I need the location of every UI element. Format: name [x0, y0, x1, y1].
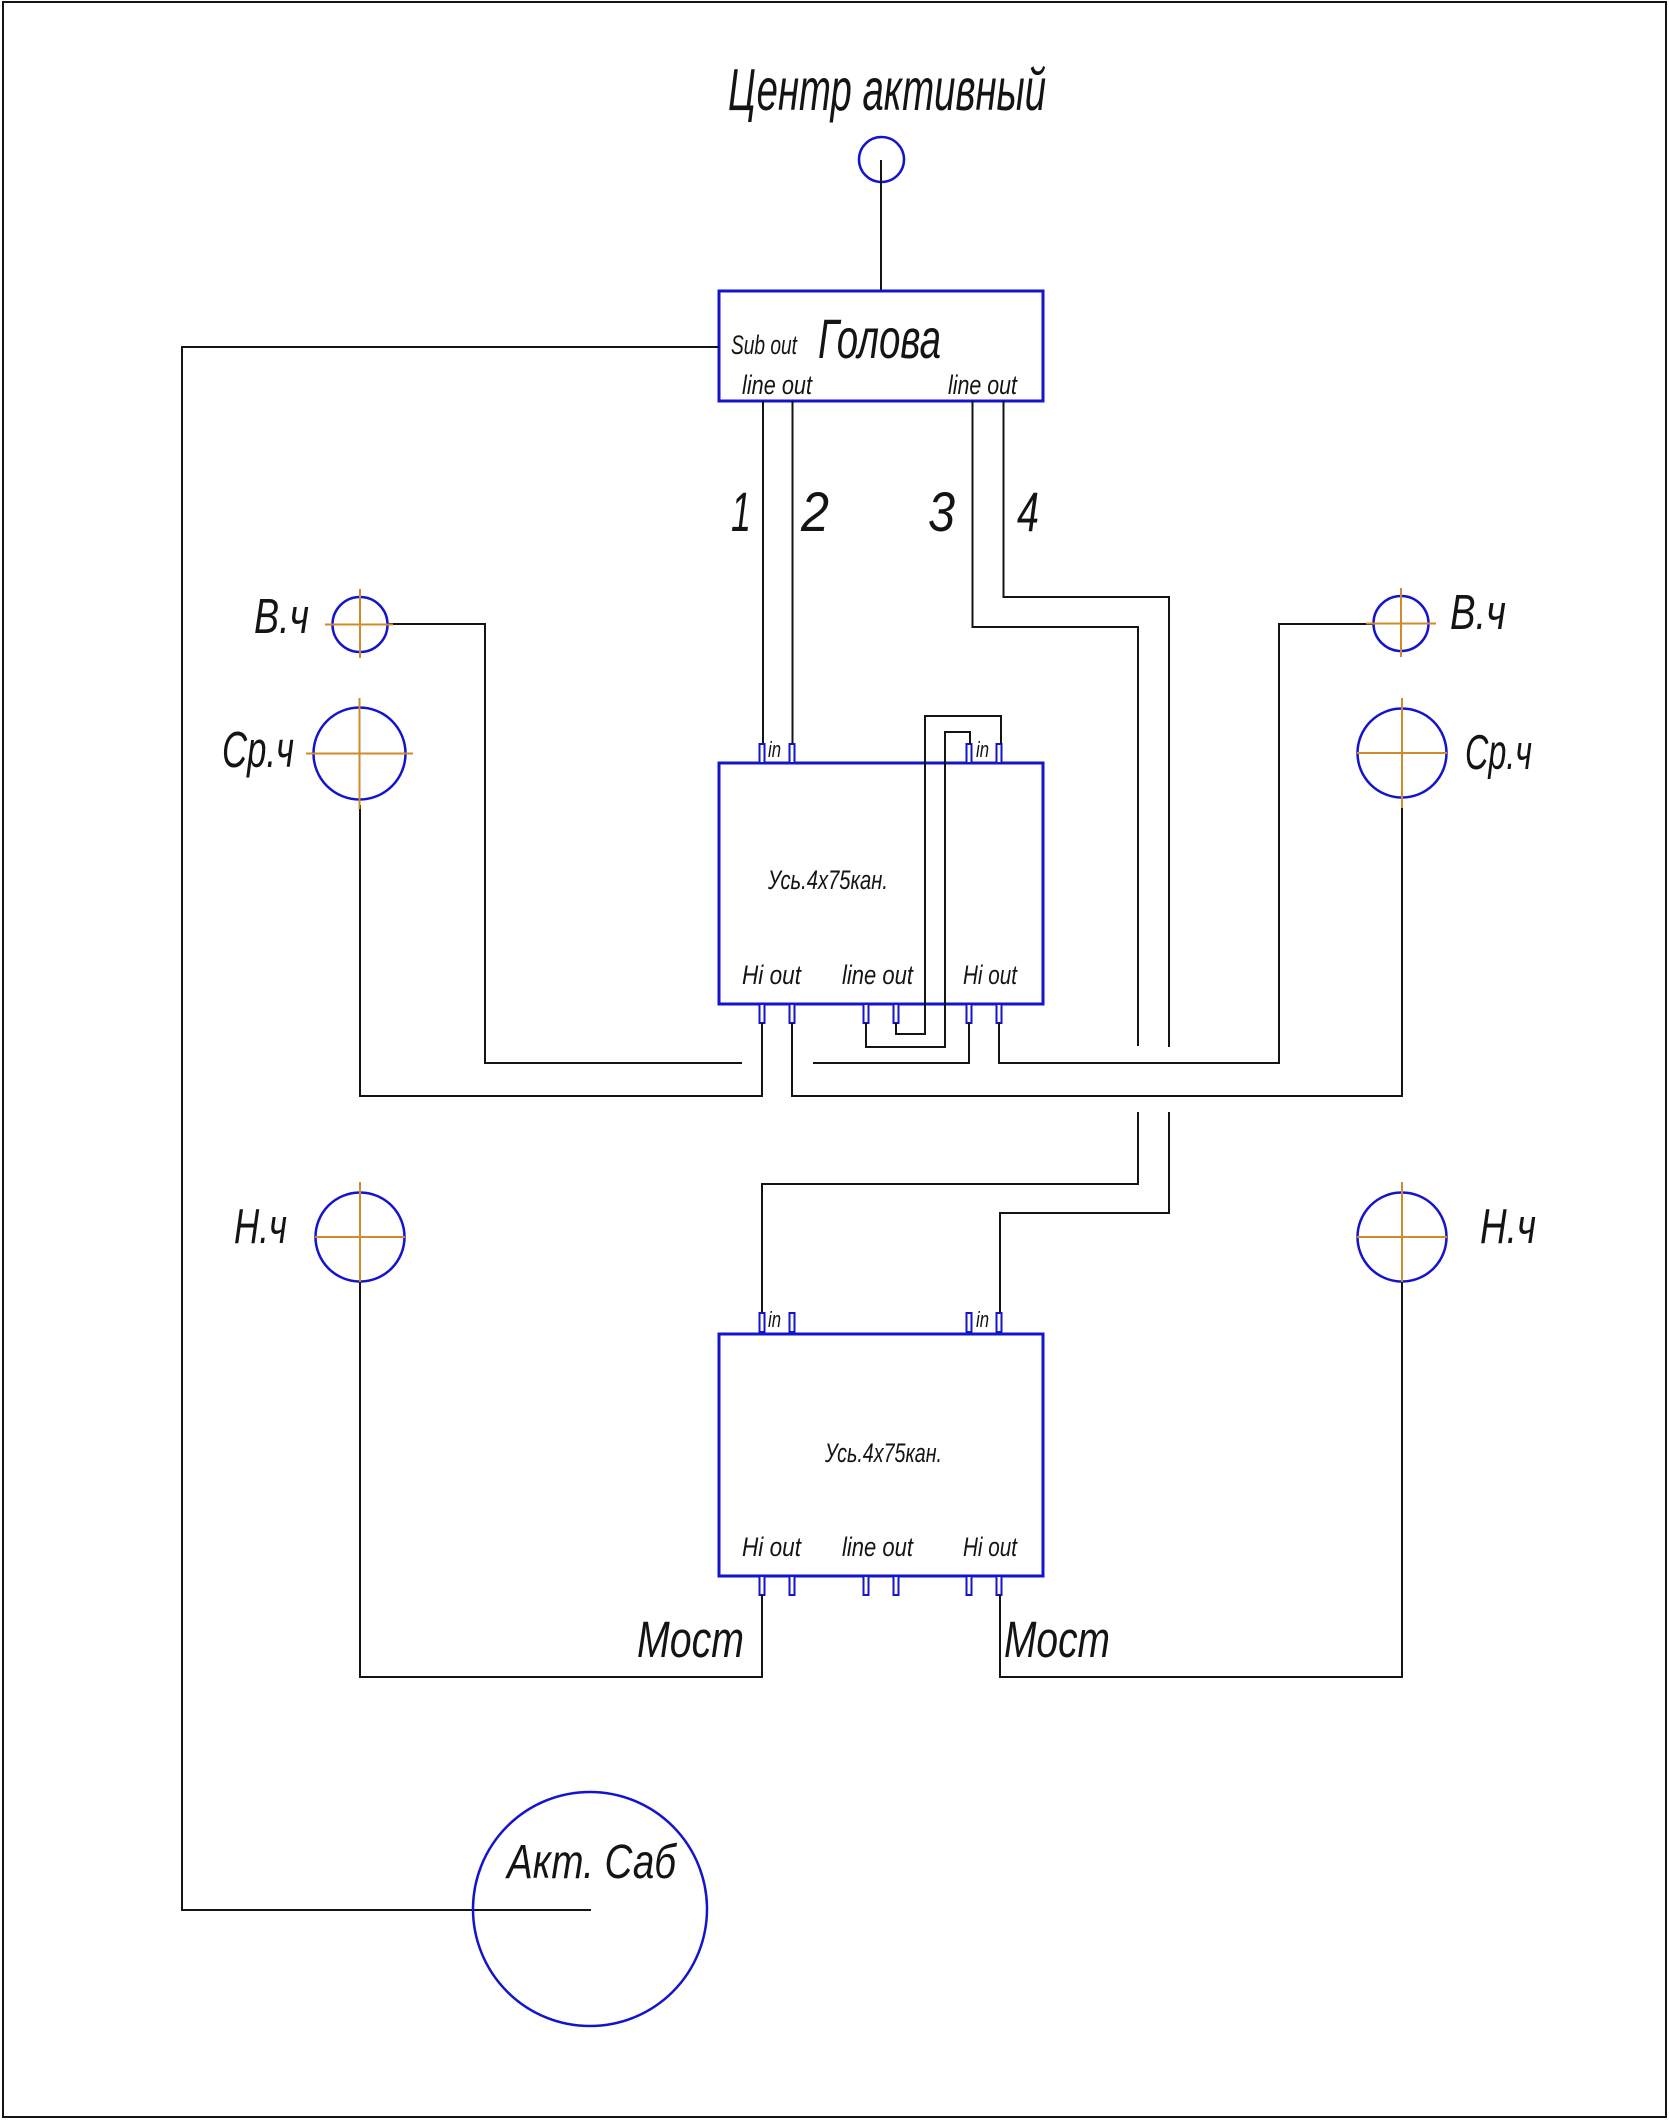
pin A2 hi out 1	[760, 1576, 765, 1595]
wire source to head	[880, 160, 882, 291]
speaker woofer Н.ч right	[1357, 1182, 1447, 1292]
svg-text:line out: line out	[842, 1532, 914, 1562]
pin A1 hi out 4	[997, 1004, 1002, 1023]
pin A1 line out 1	[864, 1004, 869, 1023]
pin A2 in1	[760, 1313, 765, 1332]
pin A1 line out 2	[894, 1004, 899, 1023]
svg-text:В.ч: В.ч	[1450, 586, 1506, 640]
svg-text:В.ч: В.ч	[254, 590, 309, 644]
subwoofer Акт. Саб	[473, 1792, 707, 2026]
wire 3 head to amp2 in1	[762, 401, 1138, 1313]
svg-text:2: 2	[800, 480, 829, 543]
speaker tweeter В.ч right	[1366, 588, 1436, 657]
svg-text:Н.ч: Н.ч	[234, 1200, 287, 1254]
wire sub out to subwoofer	[182, 347, 719, 1910]
wire 1 head to amp1 in1	[762, 401, 764, 744]
wire A2 bridge left to left woofer	[360, 1282, 762, 1677]
svg-text:Усь.4х75кан.: Усь.4х75кан.	[824, 1438, 942, 1468]
wire 4 head to amp2 in4	[1000, 401, 1169, 1313]
svg-text:Hi out: Hi out	[963, 960, 1018, 990]
wire A1 hi out 4 to right tweeter	[999, 624, 1374, 1063]
speaker midrange Ср.ч right	[1357, 698, 1447, 808]
wire left tweeter to A1 hi out 3	[388, 624, 969, 1063]
svg-text:Sub out: Sub out	[731, 330, 798, 360]
svg-text:in: in	[768, 737, 781, 762]
svg-text:1: 1	[731, 480, 751, 543]
pin A1 hi out 2	[790, 1004, 795, 1023]
svg-text:Ср.ч: Ср.ч	[222, 721, 294, 778]
wire A1 hi out 1 to left midrange	[360, 805, 762, 1096]
pin A2 line out 1	[864, 1576, 869, 1595]
wire A1 line out 2 loop to in4	[896, 716, 1001, 1034]
wire 2 head to amp1 in2	[792, 401, 794, 744]
pin A2 hi out 3	[967, 1576, 972, 1595]
svg-text:Усь.4х75кан.: Усь.4х75кан.	[767, 865, 888, 895]
pin A2 in2	[790, 1313, 795, 1332]
svg-text:Мост: Мост	[1004, 1611, 1110, 1668]
pin A2 in3	[967, 1313, 972, 1332]
speaker woofer Н.ч left	[315, 1182, 405, 1292]
speaker tweeter В.ч left	[325, 589, 393, 658]
svg-text:Hi out: Hi out	[963, 1532, 1018, 1562]
speaker midrange Ср.ч left	[306, 698, 413, 809]
connector circle (source)	[859, 137, 904, 182]
pin A1 hi out 1	[760, 1004, 765, 1023]
svg-text:3: 3	[928, 480, 955, 543]
pin A1 hi out 3	[967, 1004, 972, 1023]
svg-text:Ср.ч: Ср.ч	[1465, 726, 1532, 780]
svg-text:Н.ч: Н.ч	[1480, 1200, 1536, 1254]
pin A2 hi out 4	[997, 1576, 1002, 1595]
svg-text:line out: line out	[948, 370, 1018, 400]
svg-text:in: in	[976, 1307, 989, 1332]
svg-text:line out: line out	[742, 370, 813, 400]
pin A2 hi out 2	[790, 1576, 795, 1595]
svg-text:Hi out: Hi out	[742, 960, 802, 990]
wire A2 bridge right to right woofer	[1000, 1282, 1402, 1677]
amplifier A2 Усь.4х75кан.	[719, 1334, 1043, 1576]
svg-text:Центр активный: Центр активный	[728, 57, 1046, 123]
pin A2 in4	[997, 1313, 1002, 1332]
amplifier A1 Усь.4х75кан.	[719, 763, 1043, 1004]
svg-text:Голова: Голова	[818, 307, 941, 370]
pin A1 in2	[790, 744, 795, 763]
pin A2 line out 2	[894, 1576, 899, 1595]
svg-text:4: 4	[1017, 480, 1039, 543]
pin A1 in4	[997, 744, 1002, 763]
pin A1 in3	[967, 744, 972, 763]
svg-text:line out: line out	[842, 960, 914, 990]
svg-text:Акт. Саб: Акт. Саб	[505, 1836, 678, 1889]
pin A1 in1	[760, 744, 765, 763]
svg-text:in: in	[976, 737, 989, 762]
head unit Голова	[719, 291, 1043, 401]
svg-text:Hi out: Hi out	[742, 1532, 802, 1562]
wire A1 line out 1 loop to in3	[866, 732, 970, 1047]
wire A1 hi out 2 to right midrange	[792, 798, 1402, 1096]
svg-text:in: in	[768, 1307, 781, 1332]
svg-text:Мост: Мост	[637, 1611, 744, 1668]
